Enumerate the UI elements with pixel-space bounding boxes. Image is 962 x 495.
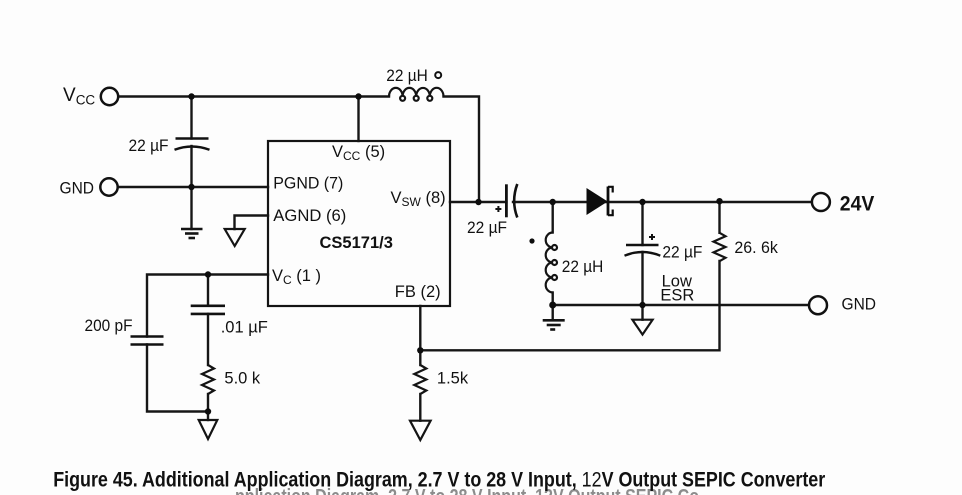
svg-text:VSW (8): VSW (8) <box>391 189 446 209</box>
svg-text:22 µF: 22 µF <box>467 219 507 237</box>
svg-text:PGND (7): PGND (7) <box>273 175 343 193</box>
svg-text:GND: GND <box>60 179 95 198</box>
svg-text:FB (2): FB (2) <box>395 283 441 301</box>
svg-text:26. 6k: 26. 6k <box>734 239 778 257</box>
svg-text:22 µF: 22 µF <box>662 244 702 262</box>
svg-text:CS5171/3: CS5171/3 <box>320 234 393 252</box>
svg-text:VC (1 ): VC (1 ) <box>272 267 321 287</box>
svg-text:22 µF: 22 µF <box>129 137 169 155</box>
svg-text:.01 µF: .01 µF <box>221 319 268 337</box>
svg-text:200 pF: 200 pF <box>85 317 133 335</box>
svg-text:1.5k: 1.5k <box>437 370 469 388</box>
svg-text:22 µH: 22 µH <box>562 258 604 276</box>
svg-text:22 µH: 22 µH <box>386 67 428 85</box>
svg-text:pplication Diagram, 2.7 V to 2: pplication Diagram, 2.7 V to 28 V Input,… <box>235 486 699 495</box>
svg-text:VCC: VCC <box>63 85 95 108</box>
svg-text:VCC (5): VCC (5) <box>332 143 385 163</box>
svg-text:AGND (6): AGND (6) <box>273 207 346 225</box>
svg-text:24V: 24V <box>840 193 875 216</box>
svg-text:GND: GND <box>842 295 877 314</box>
svg-text:5.0 k: 5.0 k <box>224 370 261 388</box>
svg-text:ESR: ESR <box>660 287 694 305</box>
